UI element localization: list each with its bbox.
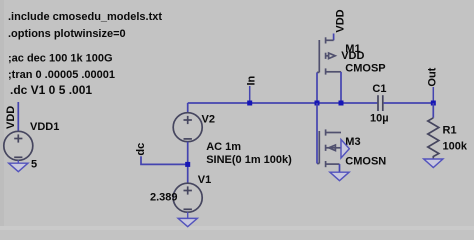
ground (V1) bbox=[178, 212, 197, 227]
voltage source VDD1 bbox=[4, 131, 33, 160]
wire Out label stem bbox=[432, 87, 434, 103]
svg-text:10µ: 10µ bbox=[370, 113, 389, 125]
svg-text:R1: R1 bbox=[443, 125, 457, 137]
svg-text:.dc V1 0 5 .001: .dc V1 0 5 .001 bbox=[10, 83, 92, 97]
wire V2 top to main bbox=[187, 103, 189, 113]
ground (R1) bbox=[424, 159, 443, 168]
svg-text:V2: V2 bbox=[202, 113, 215, 125]
svg-text:.options plotwinsize=0: .options plotwinsize=0 bbox=[8, 28, 126, 40]
svg-text:;tran 0 .00005 .00001: ;tran 0 .00005 .00001 bbox=[8, 69, 115, 81]
svg-text:5: 5 bbox=[31, 159, 37, 171]
svg-text:VDD: VDD bbox=[5, 106, 17, 129]
svg-text:VDD: VDD bbox=[335, 9, 347, 32]
wire M1 source to VDD bbox=[333, 34, 335, 41]
wire M1 gate down bbox=[316, 72, 318, 103]
svg-text:;ac dec 100 1k 100G: ;ac dec 100 1k 100G bbox=[8, 53, 113, 65]
ground (M3 source) bbox=[330, 172, 349, 181]
svg-text:VDD: VDD bbox=[341, 50, 364, 62]
wire main horizontal In bbox=[188, 102, 378, 104]
svg-text:100k: 100k bbox=[443, 141, 468, 153]
wire In label stem bbox=[249, 86, 251, 103]
capacitor C1 bbox=[378, 95, 383, 111]
wire VDD1 top bbox=[17, 102, 19, 131]
wire V2 bottom to V1 top bbox=[187, 142, 189, 184]
junction drain bbox=[339, 101, 344, 106]
wire M3 source to ground bbox=[339, 164, 341, 172]
wire C1 right to Out bbox=[384, 102, 434, 104]
svg-text:AC 1m: AC 1m bbox=[206, 141, 241, 153]
voltage source V1 bbox=[173, 183, 202, 212]
svg-text:Out: Out bbox=[426, 67, 438, 86]
svg-text:CMOSP: CMOSP bbox=[345, 63, 385, 75]
svg-text:dc: dc bbox=[135, 143, 147, 156]
svg-text:In: In bbox=[246, 75, 258, 85]
junction In bbox=[247, 101, 252, 106]
transistor M3 (NMOS CMOSN) bbox=[317, 129, 341, 167]
svg-text:2.389: 2.389 bbox=[150, 191, 178, 203]
voltage source V2 bbox=[173, 113, 202, 142]
svg-text:VDD1: VDD1 bbox=[30, 121, 59, 133]
svg-text:C1: C1 bbox=[372, 83, 386, 95]
resistor R1 bbox=[428, 118, 439, 159]
transistor M1 (PMOS CMOSP) bbox=[317, 37, 341, 74]
wire M1 drain down bbox=[340, 72, 342, 103]
svg-text:.include cmosedu_models.txt: .include cmosedu_models.txt bbox=[8, 11, 162, 23]
svg-text:V1: V1 bbox=[198, 174, 211, 186]
svg-text:CMOSN: CMOSN bbox=[345, 156, 386, 168]
junction gate bbox=[315, 101, 320, 106]
wire M3 gate up bbox=[316, 103, 318, 164]
ground (M3 bulk, rotated) bbox=[341, 140, 349, 159]
svg-text:SINE(0 1m 100k): SINE(0 1m 100k) bbox=[206, 154, 292, 166]
ground (VDD1) bbox=[9, 160, 28, 171]
wire Out down to R1 bbox=[432, 103, 434, 118]
wire dc stub bbox=[141, 156, 188, 164]
junction Out bbox=[431, 101, 436, 106]
junction dc/V2/V1 bbox=[185, 162, 190, 167]
